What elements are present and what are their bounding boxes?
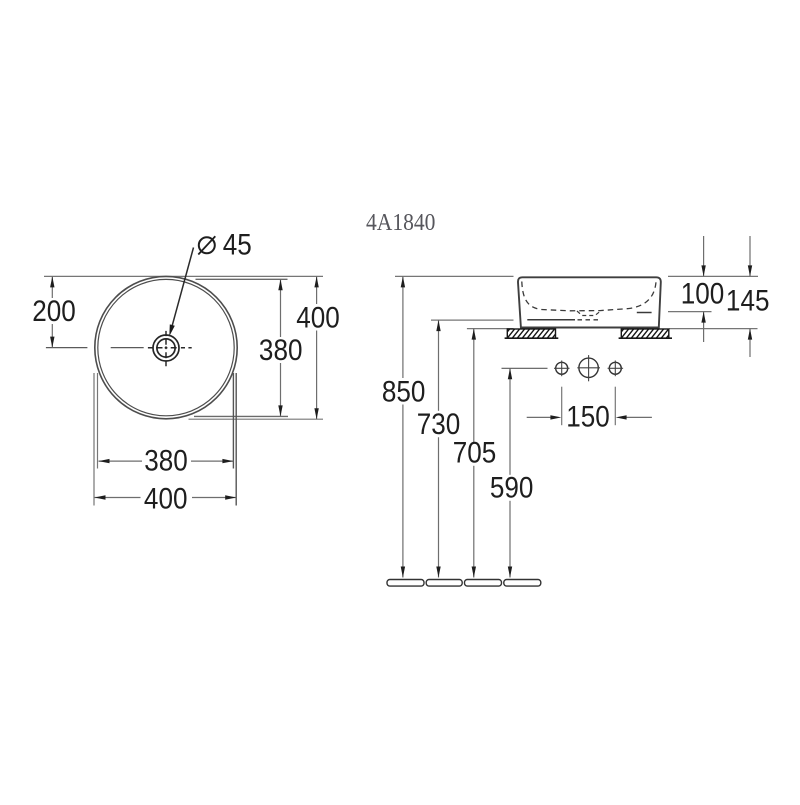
drain outer circle xyxy=(153,335,179,361)
extension line vertical right outer (400) xyxy=(235,373,237,506)
faucet centerline xyxy=(502,367,548,369)
counter line right xyxy=(669,328,758,330)
dimension 400 horizontal line xyxy=(95,497,141,499)
center line horizontal xyxy=(46,347,88,349)
dimension 200 vertical line xyxy=(51,276,53,298)
drain crosshair horizontal xyxy=(148,347,192,349)
drain inner circle xyxy=(157,339,175,357)
dimension 850 xyxy=(402,276,404,378)
svg-text:380: 380 xyxy=(144,444,188,477)
dimension 150 xyxy=(527,416,552,418)
svg-text:705: 705 xyxy=(453,436,497,469)
svg-text:380: 380 xyxy=(259,333,303,366)
basin outline xyxy=(518,277,661,327)
dimension 400 vertical line xyxy=(316,276,318,304)
extension lines for 150 xyxy=(561,387,563,426)
dimension 590 xyxy=(509,368,511,475)
drain crosshair vertical xyxy=(165,331,167,366)
top extension line xyxy=(44,275,323,277)
extension line vertical right inner (380) xyxy=(232,373,234,469)
basin inner bowl dashed profile xyxy=(522,282,656,311)
faucet hole right xyxy=(609,362,621,374)
faucet hole center xyxy=(579,358,598,377)
floor tiles xyxy=(387,580,424,587)
extension line 730 reference xyxy=(431,319,514,321)
dimension 145 arrows xyxy=(749,236,751,276)
top extension line for 380 xyxy=(196,278,288,280)
bottom extension line for 400 xyxy=(189,418,324,420)
extension line vertical left outer (400) xyxy=(93,373,95,506)
dimension 100 arrows xyxy=(703,236,705,276)
dimension 730 xyxy=(438,320,440,411)
extension line vertical left inner (380) xyxy=(97,373,99,469)
svg-text:200: 200 xyxy=(32,294,76,327)
svg-text:145: 145 xyxy=(726,284,770,317)
svg-text:100: 100 xyxy=(681,277,725,310)
top extension line left xyxy=(395,275,514,277)
svg-text:400: 400 xyxy=(144,482,188,515)
bottom extension line for 380 xyxy=(194,415,288,417)
dimension 705 xyxy=(473,329,475,444)
dimension 380 horizontal line xyxy=(99,460,143,462)
label diameter 45 xyxy=(199,237,215,253)
inner edge right xyxy=(637,312,652,314)
counter line left xyxy=(467,328,514,330)
svg-text:4A1840: 4A1840 xyxy=(366,208,435,236)
svg-text:590: 590 xyxy=(490,471,534,504)
svg-text:150: 150 xyxy=(566,400,610,433)
top extension line right xyxy=(668,275,758,277)
outer circle (basin rim) xyxy=(95,276,237,418)
leader line for diameter 45 xyxy=(171,248,194,332)
mounting pad right xyxy=(614,326,681,341)
svg-text:850: 850 xyxy=(382,375,426,408)
mounting pad left xyxy=(500,326,567,341)
dimension 380 vertical line xyxy=(280,279,282,337)
inner circle (basin rim inner) xyxy=(98,279,234,415)
drain dashed xyxy=(578,319,600,321)
basin inner bottom edge xyxy=(527,319,575,321)
extension line 100 reference xyxy=(668,311,712,313)
svg-text:400: 400 xyxy=(296,301,340,334)
svg-text:45: 45 xyxy=(223,228,252,261)
faucet hole left xyxy=(556,362,568,374)
